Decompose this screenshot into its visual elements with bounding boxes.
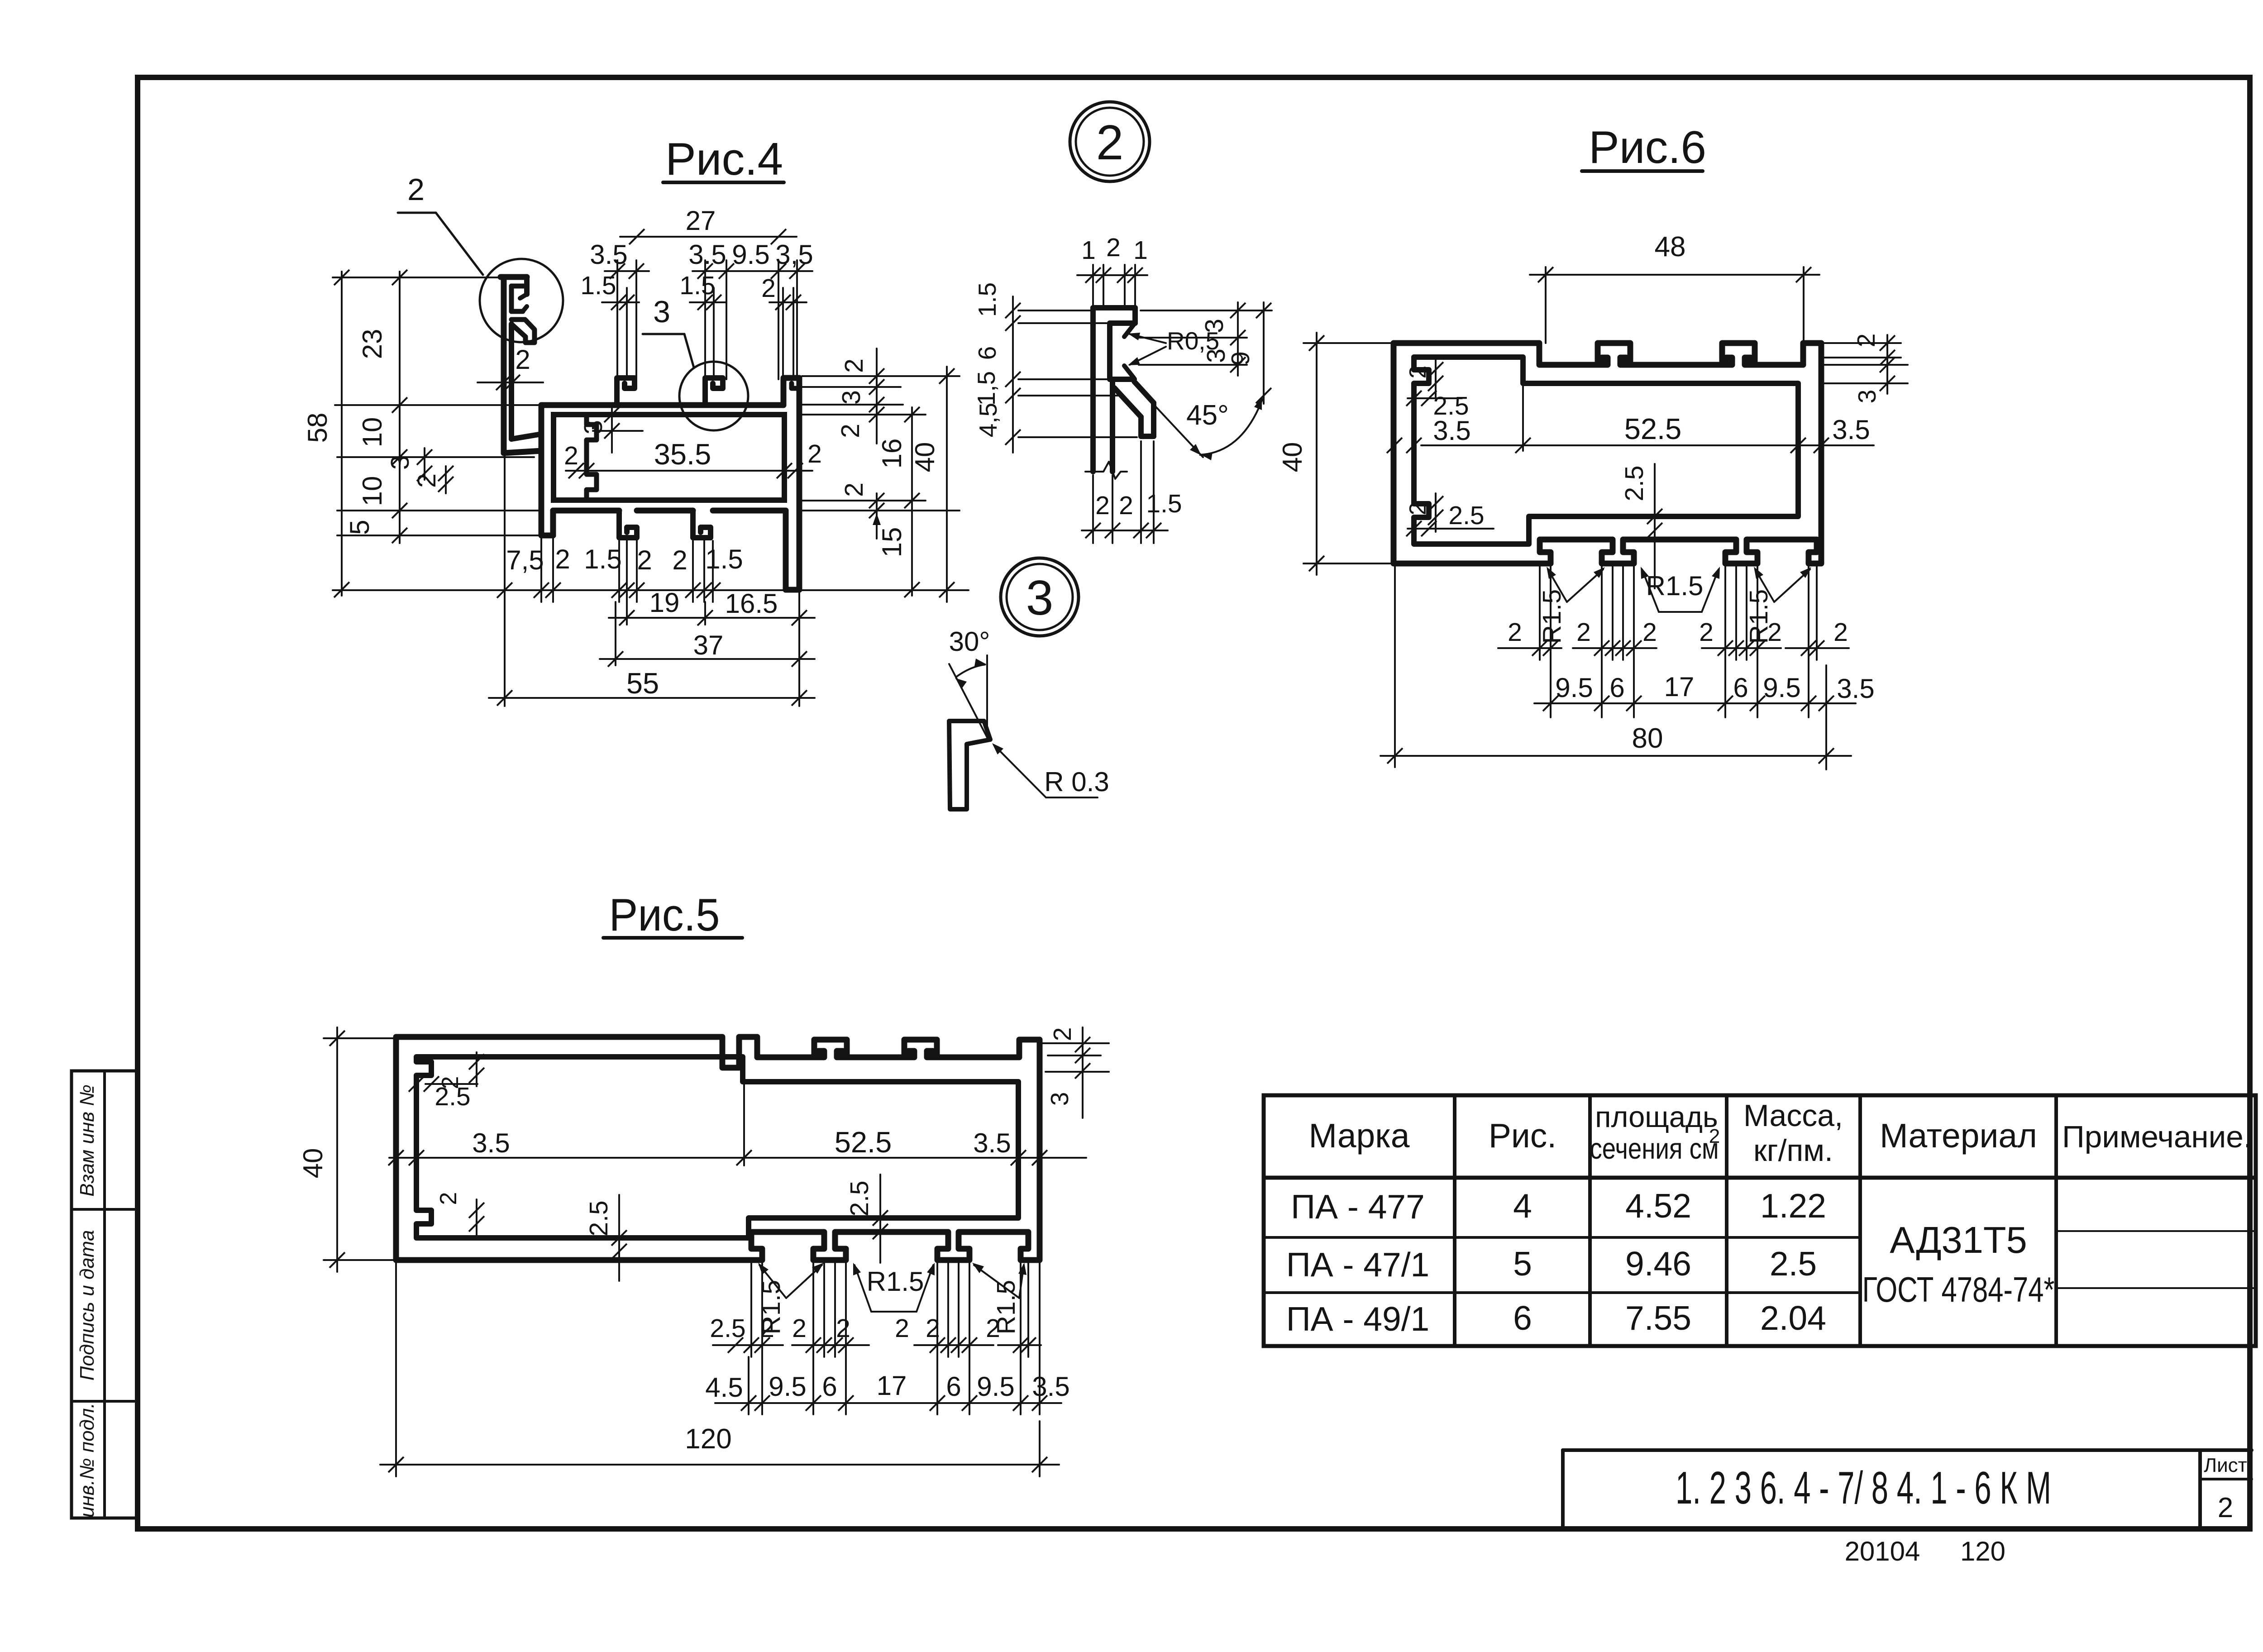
fig5 title Рис.5	[603, 890, 742, 941]
svg-text:Лист: Лист	[2204, 1454, 2247, 1476]
svg-text:1: 1	[1081, 236, 1096, 265]
svg-text:сечения см: сечения см	[1590, 1132, 1719, 1165]
svg-text:40: 40	[910, 442, 940, 473]
svg-text:2: 2	[515, 344, 530, 375]
fig5 dim 2.5 top	[409, 1076, 477, 1111]
svg-text:R1.5: R1.5	[1537, 589, 1566, 644]
fig5 right extension lines	[1042, 1043, 1109, 1072]
fig4 dim 3 right	[837, 390, 866, 405]
svg-text:30°: 30°	[949, 626, 990, 657]
svg-text:7.55: 7.55	[1625, 1299, 1691, 1337]
svg-text:27: 27	[686, 205, 716, 236]
svg-text:2.5: 2.5	[434, 1082, 470, 1111]
fig4 baseline	[333, 589, 969, 591]
svg-text:2: 2	[2218, 1492, 2233, 1523]
fig6 slot lip extension lines	[1540, 566, 1817, 660]
svg-text:R1.5: R1.5	[1744, 589, 1773, 644]
svg-text:3.5: 3.5	[973, 1128, 1011, 1158]
svg-text:1. 2 3 6. 4 - 7/ 8 4. 1 - 6 К: 1. 2 3 6. 4 - 7/ 8 4. 1 - 6 К М	[1676, 1463, 2051, 1514]
fig4 dim 55	[489, 667, 815, 706]
svg-text:2.5: 2.5	[1448, 501, 1484, 530]
svg-text:ПА - 47/1: ПА - 47/1	[1286, 1246, 1430, 1284]
svg-text:45°: 45°	[1186, 400, 1229, 431]
svg-text:48: 48	[1655, 231, 1686, 263]
detail2 top extension lines	[1093, 265, 1135, 307]
fig6 dim 40	[1277, 333, 1394, 575]
svg-text:20104: 20104	[1845, 1536, 1920, 1566]
svg-text:52.5: 52.5	[835, 1126, 892, 1159]
fig5 slot lip extension lines	[751, 1263, 1028, 1357]
fig4 dim 27	[620, 205, 797, 244]
svg-text:2: 2	[1095, 491, 1110, 520]
fig5 dim 2 tab bottom	[435, 1192, 484, 1236]
fig4 dim 2 bottomwall	[840, 482, 884, 539]
svg-text:Марка: Марка	[1309, 1117, 1410, 1155]
svg-text:2.04: 2.04	[1760, 1299, 1826, 1337]
svg-text:2: 2	[407, 172, 425, 207]
fig6 dim 2 tab bottom	[1405, 493, 1443, 532]
svg-text:9: 9	[1226, 351, 1255, 366]
svg-text:кг/пм.: кг/пм.	[1753, 1133, 1833, 1168]
fig4 dim 16	[877, 407, 920, 597]
fig6 profile outline	[1394, 343, 1821, 563]
svg-text:4.5: 4.5	[705, 1372, 743, 1403]
table material АД31Т5 ГОСТ 4784-74*	[1862, 1219, 2055, 1309]
detail2 dim 3 upper	[1200, 302, 1246, 376]
svg-text:3: 3	[579, 420, 608, 434]
svg-text:37: 37	[693, 630, 724, 660]
svg-text:2: 2	[836, 1314, 850, 1343]
fig4 dim row 1.5/1.5/2	[580, 271, 807, 310]
svg-text:4: 4	[1513, 1187, 1532, 1225]
svg-text:2: 2	[672, 545, 687, 575]
svg-text:35.5: 35.5	[654, 438, 711, 471]
fig4 dim 2 cap	[840, 349, 884, 444]
svg-text:9.5: 9.5	[769, 1371, 806, 1402]
svg-text:5: 5	[1513, 1245, 1532, 1283]
fig4 dim 2 wall	[836, 424, 865, 438]
svg-text:2: 2	[1096, 115, 1124, 170]
fig6 dim 2.5 top	[1406, 391, 1469, 420]
svg-text:16: 16	[877, 439, 907, 469]
svg-text:4,5: 4,5	[974, 403, 1002, 437]
svg-text:ПА - 477: ПА - 477	[1291, 1188, 1425, 1226]
fig4 top extension lines	[617, 260, 797, 379]
fig5 profile outline	[396, 1037, 1040, 1260]
node circle 3	[1001, 558, 1079, 636]
fig6 dim 48	[1530, 231, 1819, 343]
fig4 dim 1.5 hookB	[705, 544, 743, 574]
svg-text:3.5: 3.5	[1032, 1371, 1069, 1402]
detail3 R0.3 leader	[992, 743, 1109, 797]
svg-text:9.5: 9.5	[977, 1371, 1014, 1402]
fig4 dim 3 inner	[579, 406, 643, 453]
svg-text:10: 10	[357, 417, 387, 448]
fig4 leader 2	[398, 172, 483, 275]
svg-text:120: 120	[1960, 1536, 2005, 1566]
svg-text:2: 2	[564, 441, 578, 470]
svg-text:2: 2	[412, 473, 441, 488]
detail2 left extension lines	[1018, 310, 1137, 437]
svg-text:6: 6	[946, 1371, 961, 1402]
svg-text:R0,5: R0,5	[1167, 327, 1219, 355]
fig4 dim 1.5 hookA	[584, 544, 621, 574]
svg-text:9.5: 9.5	[1555, 673, 1593, 703]
table header Марка	[1309, 1117, 1410, 1155]
fig4 title Рис.4	[663, 134, 784, 185]
svg-text:2: 2	[1119, 491, 1133, 520]
sidebar label инв.№ подл.	[76, 1403, 98, 1518]
svg-text:Подпись и дата: Подпись и дата	[76, 1230, 98, 1381]
fig4 dim 2 left	[412, 466, 454, 493]
title block Лист	[2204, 1454, 2247, 1476]
svg-text:1.22: 1.22	[1760, 1187, 1826, 1225]
svg-text:3: 3	[1853, 390, 1881, 404]
fig6 dim 2 tab top	[1405, 360, 1443, 398]
table row ПА-49/1	[1286, 1299, 1826, 1338]
svg-text:2.5: 2.5	[710, 1314, 745, 1343]
svg-text:2.5: 2.5	[584, 1200, 613, 1236]
fig5 dim 2-3 right	[1046, 1027, 1090, 1118]
fig4 dim 2 flange	[477, 344, 543, 390]
svg-text:Рис.5: Рис.5	[609, 890, 720, 941]
svg-text:2.5: 2.5	[1770, 1245, 1817, 1283]
svg-text:3.5: 3.5	[688, 239, 726, 270]
fig4 detail circle 3	[679, 362, 748, 430]
svg-text:Рис.6: Рис.6	[1589, 122, 1706, 173]
detail2 dim 2/2/1.5	[1082, 489, 1182, 538]
fig4 left dim stack line	[392, 270, 407, 543]
fig4 dim 3 left	[386, 448, 432, 481]
svg-text:3,5: 3,5	[775, 239, 813, 270]
svg-text:3.5: 3.5	[1837, 673, 1874, 704]
svg-text:2: 2	[1508, 618, 1522, 647]
fig5 lower extension lines	[749, 1263, 1040, 1414]
fig6 right extension lines	[1824, 343, 1908, 383]
svg-text:R1.5: R1.5	[757, 1280, 786, 1334]
handwritten 20104	[1845, 1536, 1920, 1566]
fig6 dim row 9.5/6/17/6/9.5/3.5	[1534, 672, 1875, 711]
svg-text:7,5: 7,5	[506, 545, 544, 575]
fig5 dim 2.5 mid left	[584, 1195, 627, 1281]
detail2 bottom extension lines	[1093, 441, 1154, 543]
title block frame	[1563, 1450, 2252, 1529]
svg-text:2: 2	[1642, 618, 1657, 647]
svg-text:1.5: 1.5	[973, 282, 1001, 317]
svg-text:120: 120	[685, 1423, 731, 1455]
fig4 dim 58	[302, 270, 349, 597]
svg-text:2: 2	[836, 424, 865, 438]
svg-text:2: 2	[807, 439, 822, 468]
fig4 dim 10 lower	[357, 476, 387, 506]
svg-text:15: 15	[877, 527, 907, 558]
svg-text:2: 2	[840, 358, 869, 373]
svg-text:55: 55	[626, 667, 659, 700]
svg-text:3.5: 3.5	[590, 239, 627, 270]
svg-text:2: 2	[761, 274, 776, 303]
svg-text:площадь: площадь	[1595, 1100, 1718, 1133]
fig5 R1.5 rightmost	[972, 1263, 1026, 1334]
fig4 dim 15	[877, 527, 907, 558]
svg-text:17: 17	[1664, 672, 1695, 702]
svg-text:58: 58	[302, 413, 333, 443]
fig4 dim 5	[344, 520, 375, 535]
detail2 dim 1/2/1	[1077, 233, 1148, 283]
svg-text:52.5: 52.5	[1624, 412, 1682, 445]
svg-text:9.46: 9.46	[1625, 1245, 1691, 1283]
svg-text:1,5: 1,5	[972, 371, 1000, 406]
node circle 2	[1070, 102, 1150, 181]
detail2 dim 9	[1226, 302, 1271, 404]
svg-text:АД31Т5: АД31Т5	[1890, 1219, 2027, 1261]
fig6 dim 3.5/52.5/3.5	[1387, 386, 1874, 453]
table row ПА-47/1	[1286, 1245, 1817, 1284]
fig6 dim row 2x6	[1498, 618, 1849, 656]
svg-text:2: 2	[1405, 502, 1431, 516]
svg-text:3.5: 3.5	[472, 1128, 510, 1158]
svg-text:6: 6	[822, 1371, 837, 1402]
svg-text:2: 2	[1405, 366, 1431, 379]
svg-text:Масса,: Масса,	[1743, 1098, 1843, 1133]
svg-text:R1.5: R1.5	[867, 1266, 924, 1297]
svg-text:16.5: 16.5	[725, 588, 778, 619]
fig5 dim row 2.5+2x6	[710, 1314, 1041, 1353]
svg-text:3: 3	[837, 390, 866, 405]
detail3 angle 30	[949, 626, 990, 739]
fig4 profile outline	[501, 277, 799, 590]
fig6 dim 2.5 bottom	[1406, 501, 1494, 536]
fig5 dim 2 tab top	[437, 1052, 484, 1089]
svg-text:3: 3	[1046, 1092, 1074, 1106]
table header Рис.	[1489, 1117, 1556, 1155]
svg-text:19: 19	[649, 587, 680, 618]
svg-text:3: 3	[653, 295, 670, 329]
svg-text:2: 2	[637, 545, 652, 575]
svg-text:6: 6	[1513, 1299, 1532, 1337]
fig4 dim 2 foot	[555, 544, 570, 574]
svg-text:Взам инв №: Взам инв №	[76, 1084, 98, 1197]
svg-text:R1.5: R1.5	[1646, 571, 1704, 601]
svg-text:2: 2	[1709, 1125, 1720, 1147]
svg-text:2: 2	[1699, 618, 1714, 647]
svg-text:инв.№ подл.: инв.№ подл.	[76, 1403, 98, 1518]
svg-text:2.5: 2.5	[1433, 392, 1469, 420]
svg-text:2: 2	[435, 1192, 462, 1205]
fig4 dim 37	[600, 630, 815, 667]
detail2 profile outline	[1085, 308, 1154, 479]
detail2 angle 45	[1136, 386, 1263, 460]
svg-text:2.5: 2.5	[845, 1180, 874, 1216]
detail2 right extension lines	[1139, 310, 1272, 365]
fig6 lower extension lines	[1551, 660, 1826, 769]
svg-text:2: 2	[1833, 618, 1848, 647]
svg-text:2: 2	[1048, 1027, 1076, 1041]
fig6 dim 2.5 mid	[1620, 464, 1662, 588]
svg-text:6: 6	[1733, 673, 1748, 703]
svg-text:2: 2	[1852, 334, 1880, 348]
sidebar label Подпись и дата	[76, 1230, 98, 1381]
svg-text:9.5: 9.5	[732, 239, 769, 270]
fig6 title Рис.6	[1582, 122, 1706, 173]
svg-text:6: 6	[973, 346, 1001, 360]
svg-text:10: 10	[357, 476, 387, 506]
svg-text:1.5: 1.5	[580, 271, 616, 300]
fig6 dim 80	[1380, 566, 1851, 767]
fig5 dim 2.5 mid right	[845, 1175, 888, 1263]
svg-text:5: 5	[344, 520, 375, 535]
svg-text:40: 40	[298, 1148, 328, 1179]
fig6 R1.5 left	[1537, 567, 1605, 644]
svg-text:40: 40	[1277, 442, 1308, 473]
svg-text:2: 2	[792, 1314, 807, 1343]
fig4 dim 2 hookA	[637, 545, 652, 575]
svg-text:2: 2	[1576, 618, 1591, 647]
fig4 dim row 3.5/3.5/9.5/3.5	[590, 239, 813, 279]
detail3 L profile	[949, 721, 990, 809]
fig5 R1.5 right small	[853, 1263, 935, 1312]
fig4 baseline ticks	[497, 582, 721, 598]
detail2 left dim stack	[972, 282, 1021, 453]
fig4 dim 23	[357, 329, 387, 359]
fig4 dim 7.5	[506, 545, 544, 575]
svg-text:1: 1	[1133, 236, 1148, 265]
sidebar label Взам инв №	[76, 1084, 98, 1197]
fig5 dim 3.5/52.5/3.5	[388, 1084, 1086, 1165]
fig5 dim 120	[380, 1263, 1059, 1476]
fig4 left extension lines	[333, 277, 541, 535]
fig5 dim 40	[298, 1027, 396, 1272]
fig4 dim 40	[910, 367, 955, 602]
left margin stamp boxes	[72, 1071, 138, 1518]
svg-text:Материал: Материал	[1880, 1117, 2037, 1155]
svg-text:80: 80	[1632, 723, 1663, 754]
table header Масса кг/пм	[1743, 1098, 1843, 1168]
svg-text:1.5: 1.5	[1146, 489, 1182, 518]
svg-text:2: 2	[555, 544, 570, 574]
svg-text:R 0.3: R 0.3	[1044, 767, 1109, 797]
svg-text:9.5: 9.5	[1763, 673, 1800, 703]
table header Примечание	[2062, 1120, 2252, 1154]
fig4 dim 19 and 16.5	[609, 587, 815, 625]
svg-text:Рис.: Рис.	[1489, 1117, 1556, 1155]
svg-text:Примечание.: Примечание.	[2062, 1120, 2252, 1154]
fig6 R1.5 right	[1744, 567, 1811, 644]
svg-text:1.5: 1.5	[679, 271, 715, 300]
svg-text:6: 6	[1609, 673, 1624, 703]
table row ПА-477	[1291, 1187, 1826, 1226]
svg-text:4.52: 4.52	[1625, 1187, 1691, 1225]
fig6 dim 2 right	[1852, 334, 1895, 404]
svg-text:1.5: 1.5	[705, 544, 743, 574]
svg-text:17: 17	[877, 1370, 907, 1401]
svg-text:23: 23	[357, 329, 387, 359]
detail2 R0.5 leader	[1128, 327, 1219, 365]
svg-text:2: 2	[926, 1314, 940, 1343]
fig4 right extension lines	[802, 376, 960, 511]
svg-text:3: 3	[1026, 570, 1054, 625]
svg-text:Рис.4: Рис.4	[665, 134, 783, 185]
fig4 leader 3	[643, 295, 694, 368]
svg-text:2: 2	[1106, 233, 1121, 262]
fig4 bottom extension lines	[505, 450, 799, 706]
sheet number 2	[2218, 1492, 2233, 1523]
handwritten 120	[1960, 1536, 2005, 1566]
fig4 dim 35.5	[564, 438, 822, 478]
document number 1.236.4-7/84.1-6КМ	[1676, 1463, 2051, 1514]
svg-text:1.5: 1.5	[584, 544, 621, 574]
fig4 detail circle 2	[480, 259, 563, 342]
svg-text:2: 2	[840, 482, 869, 497]
svg-text:2: 2	[895, 1314, 909, 1343]
fig4 dim 2 hookB	[672, 545, 687, 575]
table header площадь сечения см2	[1590, 1100, 1720, 1165]
fig5 dim row 4.5/9.5/6/17/6/9.5/3.5	[705, 1370, 1069, 1411]
parts table grid	[1264, 1095, 2256, 1346]
fig6 R1.5 middle	[1641, 567, 1720, 612]
svg-text:ГОСТ 4784-74*: ГОСТ 4784-74*	[1862, 1270, 2055, 1309]
table header Материал	[1880, 1117, 2037, 1155]
svg-text:3.5: 3.5	[1832, 415, 1870, 445]
svg-text:ПА - 49/1: ПА - 49/1	[1286, 1300, 1430, 1338]
svg-text:2.5: 2.5	[1620, 465, 1649, 501]
fig5 R1.5 left	[757, 1263, 824, 1334]
fig4 dim 10 upper	[357, 417, 387, 448]
